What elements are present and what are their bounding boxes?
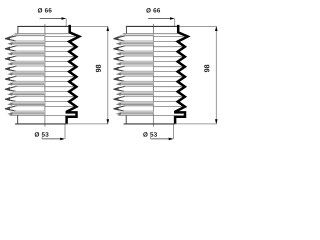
arrowhead 98 bottom [107,119,110,124]
pleat 7 groove line [12,102,45,104]
pleat 7 lower face line [14,100,45,102]
pleat 4 groove shading band [10,72,45,75]
pleat 3 upper face line [15,55,45,57]
section line at convolution crest 3 [45,56,75,58]
pleat 5 lower face line [14,80,45,82]
section line at convolution root 3 [45,61,69,63]
arrowhead Ø66 [62,17,67,20]
centerline [44,24,46,127]
dimension label Ø53 [35,132,49,137]
pleat 8 left tip chevron [5,106,17,111]
pleat 6 valley chevron [9,93,13,95]
pleat 2 groove line [12,52,45,54]
flange-to-pleat transition diagonal [5,34,18,39]
pleat 3 valley chevron [9,63,13,65]
section line at convolution crest 4 [45,66,75,68]
section line at convolution crest 5 [45,76,75,78]
section line at convolution crest 2 [45,46,75,48]
pleat 7 left tip apex [5,97,11,101]
section line at convolution root 5 [45,81,69,83]
pleat 5 valley chevron [9,83,13,85]
pleat 1 left tip chevron [5,36,17,41]
pleat 4 lower face line [14,70,45,72]
pleat 3 groove shading band [10,61,45,64]
boot bottom edge + 98 bottom extension line [15,123,66,125]
boot bottom neck left edge [17,115,19,123]
pleat 6 left tip apex [5,87,11,91]
pleat 2 upper face line [15,45,45,47]
pleat 6 lower face line [14,90,45,92]
pleat 4 left tip chevron [5,66,17,71]
pleat 5 upper face line [15,75,45,77]
pleat 7 left tip chevron [5,96,17,101]
pleat 1 upper face line [15,35,45,37]
pleat 4 upper face line [15,65,45,67]
pleat 7 upper face line [15,95,45,97]
dimension line Ø53 [42,138,63,140]
pleat 5 left tip chevron [5,76,17,81]
pleat 7 groove shading band [10,102,45,105]
extension line Ø53 [64,124,66,138]
pleat 8 valley line [9,113,45,115]
pleat 5 left tip apex [5,77,11,81]
pleat 6 groove shading band [10,92,45,95]
pleat 3 left tip chevron [5,56,17,61]
pleat 1 groove line [12,42,45,44]
pleat 1 left tip apex [5,37,11,41]
section line at convolution root 6 [45,91,69,93]
pleat 4 valley line [9,73,45,75]
pleat 4 left tip apex [5,67,11,71]
section line at convolution root 7 [45,101,69,103]
extension line Ø66 [65,19,67,27]
pleat 1 lower face line [14,40,45,42]
pleat 3 valley line [9,63,45,65]
section line at convolution root 1 [45,41,69,43]
pleat 4 valley chevron [9,73,13,75]
pleat 8 groove line [12,112,45,114]
dimension line Ø53 left tick [41,137,43,139]
pleat 6 left tip chevron [5,86,17,91]
arrowhead 98 top [107,26,110,31]
pleat 8 upper face line [15,105,45,107]
dimension label Ø66 [38,8,52,13]
section line at convolution crest 6 [45,86,75,88]
section line at convolution root 2 [45,51,69,53]
pleat 8 lower face line [14,110,45,112]
pleat 2 left tip chevron [5,46,17,51]
pleat 1 groove shading band [10,41,45,44]
pleat 1 valley chevron [9,43,13,45]
pleat 8 valley chevron [9,113,13,115]
bellows figure 2 (right boot, duplicate of figure 1) [113,8,218,140]
pleat 1 valley line [9,43,45,45]
bellows figure 1 (left boot with dimensions) [5,8,110,140]
boot bold sectioned silhouette (right outline) [67,26,80,123]
arrowhead Ø53 [60,138,65,141]
dimension line Ø66 [40,18,65,20]
pleat 2 valley line [9,53,45,55]
section line at convolution root 4 [45,71,69,73]
pleat 5 groove line [12,82,45,84]
groove shading band below top flange [13,34,45,36]
pleat 3 left tip apex [5,57,11,61]
section line at convolution crest 8 [45,106,75,108]
pleat 8 left tip apex [5,107,11,111]
pleat 6 groove line [12,92,45,94]
boot top flange left edge [17,26,19,33]
boot top flange top edge + 98 top extension line [17,25,68,27]
pleat 7 valley chevron [9,103,13,105]
pleat 3 lower face line [14,60,45,62]
dimension line 98 [107,26,109,124]
pleat 4 groove line [12,72,45,74]
pleat 2 left tip apex [5,47,11,51]
pleat 2 groove shading band [10,51,45,54]
pleat 6 upper face line [15,85,45,87]
boot top flange bottom line [15,33,69,35]
pleat 2 valley chevron [9,53,13,55]
pleat 7 valley line [9,103,45,105]
white background [0,0,220,157]
section line at convolution crest 7 [45,96,75,98]
pleat 5 groove shading band [10,82,45,85]
boot bottom neck top line [10,114,66,116]
dimension label 98 [96,65,101,73]
pleat 5 valley line [9,83,45,85]
pleat 6 valley line [9,93,45,95]
section line at convolution crest 1 [45,36,75,38]
pleat 3 groove line [12,62,45,64]
pleat 2 lower face line [14,50,45,52]
pleat 8 groove shading band [10,111,45,114]
